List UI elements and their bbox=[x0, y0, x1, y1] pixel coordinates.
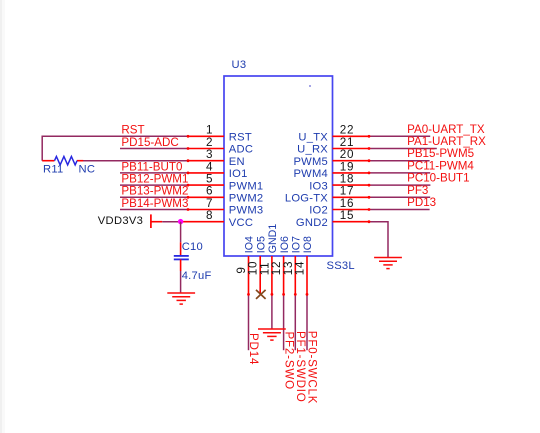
svg-text:GND2: GND2 bbox=[296, 217, 328, 229]
svg-text:18: 18 bbox=[340, 173, 354, 186]
resistor R11 bbox=[42, 157, 83, 165]
svg-text:5: 5 bbox=[206, 173, 213, 186]
pin 3 EN bbox=[188, 148, 245, 168]
wire net PD14 pin9 bbox=[248, 294, 250, 350]
svg-text:17: 17 bbox=[340, 185, 354, 198]
pin 19 PWM4 bbox=[293, 160, 369, 180]
svg-text:IO3: IO3 bbox=[309, 180, 328, 192]
svg-text:IO8: IO8 bbox=[302, 236, 314, 253]
svg-text:PD15-ADC: PD15-ADC bbox=[121, 136, 178, 149]
svg-text:PC11-PWM4: PC11-PWM4 bbox=[407, 159, 474, 172]
svg-text:19: 19 bbox=[340, 160, 354, 173]
wire net PF3 pin17 bbox=[369, 196, 430, 198]
svg-text:4: 4 bbox=[206, 160, 213, 173]
pin 5 PWM1 bbox=[188, 173, 264, 193]
svg-text:R11: R11 bbox=[43, 164, 63, 176]
svg-text:NC: NC bbox=[79, 164, 96, 176]
pin 9 IO4 bbox=[235, 236, 256, 294]
svg-text:IO5: IO5 bbox=[255, 236, 267, 253]
wire capacitor to ground bbox=[180, 259, 182, 292]
pin 15 GND2 bbox=[296, 209, 369, 229]
wire net PB12-PWM1 pin5 bbox=[120, 184, 188, 186]
svg-text:U3: U3 bbox=[232, 59, 247, 71]
wire net PB13-PWM2 pin6 bbox=[120, 196, 188, 198]
svg-text:PC10-BUT1: PC10-BUT1 bbox=[407, 172, 470, 185]
svg-text:U_RX: U_RX bbox=[297, 144, 328, 156]
pin 14 IO8 bbox=[294, 236, 315, 294]
svg-text:PD13: PD13 bbox=[407, 196, 436, 209]
pin 4 IO1 bbox=[188, 160, 248, 180]
wire net EN pin3 (from resistor) bbox=[83, 160, 188, 162]
ground under C10 bbox=[167, 293, 195, 304]
svg-text:3: 3 bbox=[206, 148, 213, 161]
svg-text:PB14-PWM3: PB14-PWM3 bbox=[121, 197, 188, 210]
svg-text:21: 21 bbox=[340, 136, 354, 149]
wire net PB15-PWM5 pin20 bbox=[369, 160, 430, 162]
pin 11 GND1 bbox=[258, 224, 279, 295]
svg-text:PWM5: PWM5 bbox=[293, 156, 328, 168]
svg-text:IO4: IO4 bbox=[244, 236, 256, 253]
svg-text:GND1: GND1 bbox=[267, 224, 279, 254]
pin 8 VCC bbox=[151, 209, 253, 229]
wire net PF0-SWCLK pin14 bbox=[306, 294, 308, 350]
svg-text:RST: RST bbox=[229, 132, 252, 144]
svg-text:7: 7 bbox=[206, 197, 213, 210]
svg-text:PB12-PWM1: PB12-PWM1 bbox=[121, 173, 188, 186]
svg-text:PB11-BUT0: PB11-BUT0 bbox=[121, 160, 182, 173]
wire net PC10-BUT1 pin18 bbox=[369, 184, 430, 186]
wire net PF2-SWO pin12 bbox=[283, 294, 285, 350]
svg-text:8: 8 bbox=[206, 209, 213, 222]
svg-text:PWM2: PWM2 bbox=[229, 193, 264, 205]
capacitor C10 bbox=[174, 256, 189, 260]
svg-text:PF1-SWDIO: PF1-SWDIO bbox=[294, 331, 307, 403]
svg-text:22: 22 bbox=[340, 124, 354, 137]
ground at GND2 pin15 bbox=[374, 258, 402, 269]
svg-text:20: 20 bbox=[340, 148, 354, 161]
pin 12 IO6 bbox=[270, 236, 291, 294]
svg-text:PWM3: PWM3 bbox=[229, 205, 264, 217]
svg-text:PA1-UART_RX: PA1-UART_RX bbox=[407, 135, 486, 148]
svg-text:IO1: IO1 bbox=[229, 168, 248, 180]
power port VDD3V3 bbox=[98, 214, 151, 228]
svg-text:PD14: PD14 bbox=[247, 333, 260, 365]
pin 13 IO7 bbox=[282, 236, 303, 294]
svg-text:14: 14 bbox=[294, 261, 307, 275]
svg-text:VCC: VCC bbox=[229, 217, 253, 229]
svg-text:2: 2 bbox=[206, 136, 213, 149]
pin 17 LOG-TX bbox=[285, 185, 370, 205]
svg-text:ADC: ADC bbox=[229, 144, 253, 156]
wire net PB11-BUT0 pin4 bbox=[120, 172, 188, 174]
pin 6 PWM2 bbox=[188, 185, 264, 205]
svg-text:IO2: IO2 bbox=[309, 205, 328, 217]
svg-text:PF0-SWCLK: PF0-SWCLK bbox=[306, 331, 319, 405]
wire net PC11-PWM4 pin19 bbox=[369, 172, 430, 174]
svg-text:RST: RST bbox=[121, 124, 144, 137]
svg-text:PF2-SWO: PF2-SWO bbox=[282, 332, 295, 390]
svg-text:VDD3V3: VDD3V3 bbox=[98, 215, 143, 227]
svg-text:1: 1 bbox=[206, 124, 213, 137]
wire net PF1-SWDIO pin13 bbox=[294, 294, 296, 350]
svg-text:PF3: PF3 bbox=[407, 184, 428, 197]
svg-text:PWM1: PWM1 bbox=[229, 180, 264, 192]
ground at GND1 pin11 bbox=[258, 329, 286, 340]
svg-text:C10: C10 bbox=[182, 241, 203, 253]
IC U3 body bbox=[224, 76, 333, 256]
svg-text:4.7uF: 4.7uF bbox=[182, 270, 212, 282]
wire net PD15-ADC pin2 bbox=[120, 148, 188, 150]
no-connect X on pin 10 bbox=[256, 290, 266, 299]
pin 22 U_TX bbox=[298, 124, 369, 144]
svg-text:LOG-TX: LOG-TX bbox=[285, 193, 328, 205]
svg-text:6: 6 bbox=[206, 185, 213, 198]
svg-text:PB15-PWM5: PB15-PWM5 bbox=[407, 147, 474, 160]
wire net GND pin15 bbox=[369, 222, 388, 257]
svg-text:U_TX: U_TX bbox=[298, 132, 328, 144]
pin 2 ADC bbox=[188, 136, 254, 156]
svg-text:PWM4: PWM4 bbox=[293, 168, 328, 180]
wire net PA0-UART_TX pin22 bbox=[369, 135, 430, 137]
svg-text:SS3L: SS3L bbox=[327, 260, 355, 272]
svg-text:15: 15 bbox=[340, 209, 354, 222]
wire net PA1-UART_RX pin21 bbox=[369, 148, 437, 150]
svg-text:PA0-UART_TX: PA0-UART_TX bbox=[407, 123, 485, 136]
svg-text:IO7: IO7 bbox=[291, 236, 303, 253]
wire pin11 to ground bbox=[271, 294, 273, 328]
wire net PB14-PWM3 pin7 bbox=[120, 209, 188, 211]
wire net RST pin1 bbox=[42, 136, 188, 160]
pin 10 IO5 bbox=[247, 236, 268, 294]
svg-text:IO6: IO6 bbox=[279, 236, 291, 253]
pin 16 IO2 bbox=[309, 197, 369, 217]
wire junction to capacitor C10 bbox=[180, 222, 182, 256]
svg-text:PB13-PWM2: PB13-PWM2 bbox=[121, 185, 188, 198]
junction dot bbox=[178, 219, 183, 224]
pin 21 U_RX bbox=[297, 136, 369, 156]
pin connection dots bbox=[187, 135, 371, 296]
wire net PD13 pin16 bbox=[369, 209, 430, 211]
pin 7 PWM3 bbox=[188, 197, 264, 217]
pin 20 PWM5 bbox=[293, 148, 369, 168]
pin 1 RST bbox=[188, 124, 252, 144]
svg-text:16: 16 bbox=[340, 197, 354, 210]
svg-text:EN: EN bbox=[229, 156, 245, 168]
pin 18 IO3 bbox=[309, 173, 369, 193]
